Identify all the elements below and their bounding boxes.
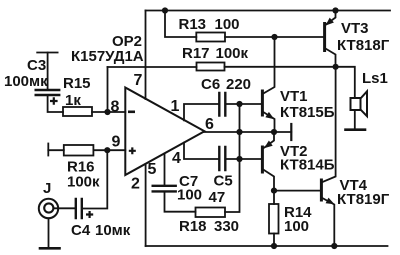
resistor R15 body [63, 107, 92, 116]
node VT2 collector dot [271, 188, 277, 194]
svg-text:8: 8 [111, 99, 120, 116]
transistor VT3 collector [325, 48, 336, 67]
wire jack to C4 [54, 207, 75, 209]
wire jack ground lead [48, 218, 50, 247]
wire R14 bottom lead [273, 234, 275, 247]
svg-text:6: 6 [205, 116, 214, 133]
wire bottom rail [146, 245, 388, 247]
wire feedback horizontal pin8 to R17 [108, 66, 197, 68]
svg-text:100мк: 100мк [4, 73, 48, 90]
svg-text:С3: С3 [27, 57, 46, 74]
svg-text:220: 220 [226, 76, 251, 93]
wire R13 to VT3 base [225, 36, 323, 38]
svg-text:9: 9 [112, 134, 121, 151]
svg-text:100: 100 [177, 187, 202, 204]
node top rail VT3 dot [332, 7, 338, 13]
wire speaker bottom lead [354, 110, 356, 129]
transistor VT1 emitter [262, 112, 274, 133]
wire R14 top lead [273, 191, 275, 204]
node pin6 dot on x239 [236, 129, 242, 135]
capacitor C3 plates [36, 90, 60, 95]
resistor R14 body [269, 204, 279, 234]
wire C5 right to VT2 base [227, 158, 262, 160]
transistor VT1 base bar [261, 91, 264, 115]
svg-text:С4: С4 [71, 222, 91, 239]
capacitor C4 plates [76, 199, 82, 218]
wire R13 left lead [165, 11, 196, 38]
svg-text:47: 47 [209, 189, 226, 206]
svg-text:VT1: VT1 [280, 88, 308, 105]
node C5 junction dot [236, 156, 242, 162]
transistor VT4 base bar [320, 180, 323, 200]
wire C3 top lead [47, 53, 49, 89]
label C3 polarity [50, 97, 58, 105]
wire R15 to pin 8 [92, 111, 125, 113]
node top rail R13 dot [162, 7, 168, 13]
wire output net R17 to speaker [225, 67, 355, 98]
resistor R16 body [64, 145, 94, 156]
wire C7 bottom to R18 [165, 193, 196, 212]
wire left vertical from top rail to op-amp pin 7 [145, 11, 147, 100]
node VT3 collector output dot [333, 64, 339, 70]
svg-text:R15: R15 [63, 75, 91, 92]
op-amp U1 triangle [125, 88, 204, 176]
wire VT2 collector to VT4 base [274, 190, 320, 192]
resistor R18 body [196, 208, 226, 218]
terminal R16 left tick [47, 144, 49, 156]
transistor VT1 emitter arrow [265, 112, 274, 119]
node pin8 junction dot [104, 109, 110, 115]
node C6 junction dot [236, 101, 242, 107]
svg-text:С6: С6 [201, 76, 220, 93]
ground bar under speaker [346, 128, 366, 131]
svg-text:5: 5 [148, 161, 157, 178]
svg-text:VT3: VT3 [341, 20, 369, 37]
svg-text:1: 1 [171, 98, 180, 115]
speaker Ls1 horn [361, 91, 368, 116]
node R13 VT1 collector dot [271, 34, 277, 40]
wire C6 right to VT1 base [227, 103, 262, 105]
terminal output tick [290, 124, 292, 140]
wire R16 left [48, 149, 64, 151]
label C4 polarity [86, 211, 93, 218]
capacitor C6 plates [219, 93, 225, 116]
resistor R17 body [197, 63, 225, 71]
wire pin 4 stub [184, 143, 218, 159]
svg-text:330: 330 [214, 218, 239, 235]
transistor VT4 emitter [321, 198, 334, 247]
svg-text:КТ814Б: КТ814Б [280, 157, 335, 174]
svg-text:100к: 100к [216, 45, 249, 62]
wire pin8 vertical riser [107, 67, 109, 112]
svg-text:4: 4 [172, 150, 181, 167]
wire R16 to pin 9 [93, 149, 125, 151]
node R14 bottom rail dot [271, 243, 277, 249]
svg-text:R18: R18 [179, 218, 207, 235]
svg-text:J: J [43, 180, 51, 197]
svg-text:1к: 1к [65, 92, 81, 109]
wire pin 5 stub down [164, 154, 166, 185]
node pin9 junction dot [104, 147, 110, 153]
capacitor C5 plates [219, 147, 225, 170]
wire pin 1 stub [184, 104, 218, 120]
wire C4 riser to pin9 node [83, 150, 107, 208]
svg-text:КТ818Г: КТ818Г [337, 37, 390, 54]
transistor VT4 collector [321, 67, 335, 183]
transistor VT3 emitter [326, 11, 336, 25]
transistor VT2 emitter [264, 132, 274, 148]
transistor VT3 emitter arrow [325, 18, 334, 26]
resistor R13 body [196, 33, 225, 42]
label minus input [128, 111, 135, 114]
svg-text:КТ815Б: КТ815Б [280, 104, 335, 121]
label plus input [129, 147, 136, 154]
capacitor C7 plates [153, 186, 176, 192]
ground bar under jack [40, 247, 60, 250]
terminal C3 top [37, 52, 57, 54]
svg-text:К157УД1А: К157УД1А [71, 48, 144, 65]
svg-text:100: 100 [284, 218, 309, 235]
svg-text:100: 100 [215, 16, 240, 33]
svg-text:КТ819Г: КТ819Г [337, 191, 390, 208]
svg-text:R17: R17 [182, 45, 210, 62]
wire feedback node vertical x239 [225, 104, 240, 212]
speaker Ls1 box [351, 98, 361, 110]
transistor VT1 collector [262, 37, 274, 94]
wire pin 6 output [204, 131, 291, 133]
svg-text:R13: R13 [179, 16, 207, 33]
node VT4 emitter bottom rail dot [331, 243, 337, 249]
transistor VT2 collector [262, 169, 274, 191]
svg-text:С5: С5 [214, 173, 233, 190]
wire top supply rail [146, 10, 391, 12]
transistor VT2 base bar [261, 147, 264, 172]
svg-text:100к: 100к [67, 174, 100, 191]
transistor VT3 base bar [323, 24, 326, 51]
connector J outer circle [39, 199, 58, 218]
svg-text:Ls1: Ls1 [362, 70, 388, 87]
svg-text:10мк: 10мк [95, 222, 131, 239]
transistor VT4 emitter arrow [326, 198, 335, 205]
wire pin 2 to bottom rail [145, 164, 147, 246]
svg-text:2: 2 [131, 176, 140, 193]
svg-text:7: 7 [134, 72, 143, 89]
node output junction dot [271, 129, 277, 135]
wire C3 bottom lead to R15 [48, 97, 63, 113]
transistor VT2 emitter arrow [264, 141, 273, 149]
connector J inner circle [44, 203, 53, 212]
